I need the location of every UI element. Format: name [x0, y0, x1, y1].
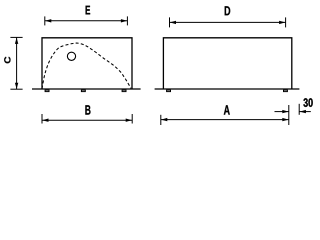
label 30 — [303, 98, 312, 107]
label C — [4, 57, 10, 64]
dimension E — [45, 16, 128, 25]
left foot 1 — [45, 90, 49, 92]
label E — [86, 6, 91, 15]
left baseline — [32, 88, 141, 90]
left body outline — [42, 38, 132, 89]
right body outline — [163, 38, 291, 89]
circle marker — [67, 52, 75, 60]
right foot 1 — [167, 90, 171, 92]
dimension C — [10, 37, 22, 89]
dashed trajectory curve — [42, 43, 131, 88]
label A — [224, 105, 230, 114]
dimension D — [170, 17, 286, 27]
left foot 3 — [122, 90, 126, 92]
dimension A — [161, 105, 289, 125]
dimension B — [42, 114, 132, 124]
label B — [85, 105, 90, 114]
dimension 30 — [275, 104, 311, 115]
right foot 2 — [284, 90, 288, 92]
label D — [225, 6, 231, 15]
right baseline — [155, 88, 300, 90]
left foot 2 — [81, 90, 85, 92]
